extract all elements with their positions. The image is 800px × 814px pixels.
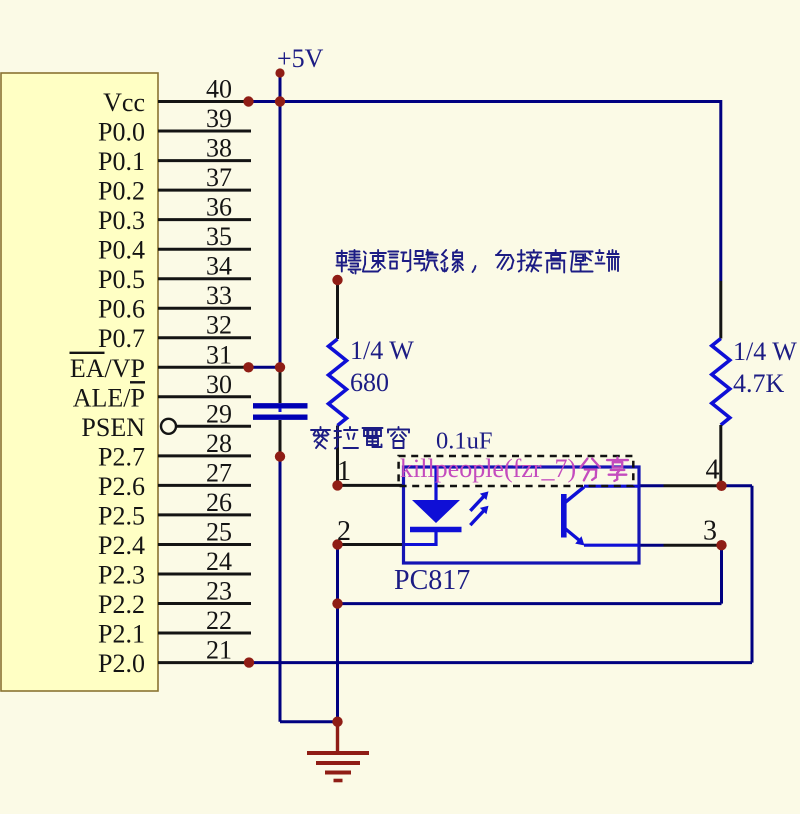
svg-text:38: 38 bbox=[206, 134, 232, 163]
svg-text:killpeople(fzr_7): killpeople(fzr_7) bbox=[400, 454, 576, 483]
svg-text:P2.7: P2.7 bbox=[98, 442, 145, 471]
svg-text:23: 23 bbox=[206, 577, 232, 606]
svg-text:P0.0: P0.0 bbox=[98, 118, 145, 147]
svg-text:28: 28 bbox=[206, 429, 232, 458]
svg-text:P0.7: P0.7 bbox=[98, 324, 145, 353]
svg-text:36: 36 bbox=[206, 193, 232, 222]
svg-text:1/4 W: 1/4 W bbox=[350, 336, 414, 365]
svg-text:P2.1: P2.1 bbox=[98, 620, 145, 649]
svg-text:25: 25 bbox=[206, 518, 232, 547]
svg-text:27: 27 bbox=[206, 458, 232, 487]
svg-text:4.7K: 4.7K bbox=[733, 369, 785, 398]
svg-text:P2.2: P2.2 bbox=[98, 590, 145, 619]
svg-text:+5V: +5V bbox=[277, 44, 324, 73]
svg-text:P2.4: P2.4 bbox=[98, 531, 145, 560]
svg-text:680: 680 bbox=[350, 368, 389, 397]
svg-text:35: 35 bbox=[206, 222, 232, 251]
svg-text:1: 1 bbox=[337, 456, 351, 487]
svg-text:P0.5: P0.5 bbox=[98, 265, 145, 294]
svg-text:21: 21 bbox=[206, 636, 232, 665]
svg-text:3: 3 bbox=[703, 516, 717, 547]
svg-text:P0.3: P0.3 bbox=[98, 206, 145, 235]
svg-text:P2.5: P2.5 bbox=[98, 501, 145, 530]
svg-text:2: 2 bbox=[337, 516, 351, 547]
svg-text:39: 39 bbox=[206, 104, 232, 133]
svg-text:22: 22 bbox=[206, 606, 232, 635]
svg-text:EA/VP: EA/VP bbox=[70, 354, 145, 383]
svg-text:4: 4 bbox=[706, 455, 720, 486]
svg-text:P0.4: P0.4 bbox=[98, 236, 145, 265]
svg-text:PSEN: PSEN bbox=[81, 413, 145, 442]
svg-text:1/4 W: 1/4 W bbox=[733, 337, 797, 366]
svg-text:Vcc: Vcc bbox=[103, 88, 145, 117]
svg-text:ALE/P: ALE/P bbox=[73, 383, 145, 412]
svg-text:P0.6: P0.6 bbox=[98, 295, 145, 324]
svg-text:26: 26 bbox=[206, 488, 232, 517]
svg-text:31: 31 bbox=[206, 340, 232, 369]
svg-text:33: 33 bbox=[206, 281, 232, 310]
svg-text:30: 30 bbox=[206, 370, 232, 399]
svg-text:34: 34 bbox=[206, 252, 232, 281]
svg-text:P2.3: P2.3 bbox=[98, 561, 145, 590]
svg-text:P2.6: P2.6 bbox=[98, 472, 145, 501]
svg-text:40: 40 bbox=[206, 75, 232, 104]
svg-text:37: 37 bbox=[206, 163, 232, 192]
svg-text:0.1uF: 0.1uF bbox=[436, 428, 493, 455]
svg-text:32: 32 bbox=[206, 311, 232, 340]
svg-text:P0.1: P0.1 bbox=[98, 147, 145, 176]
svg-text:24: 24 bbox=[206, 547, 232, 576]
svg-text:P0.2: P0.2 bbox=[98, 177, 145, 206]
svg-text:PC817: PC817 bbox=[394, 565, 470, 596]
svg-text:P2.0: P2.0 bbox=[98, 649, 145, 678]
svg-text:29: 29 bbox=[206, 399, 232, 428]
